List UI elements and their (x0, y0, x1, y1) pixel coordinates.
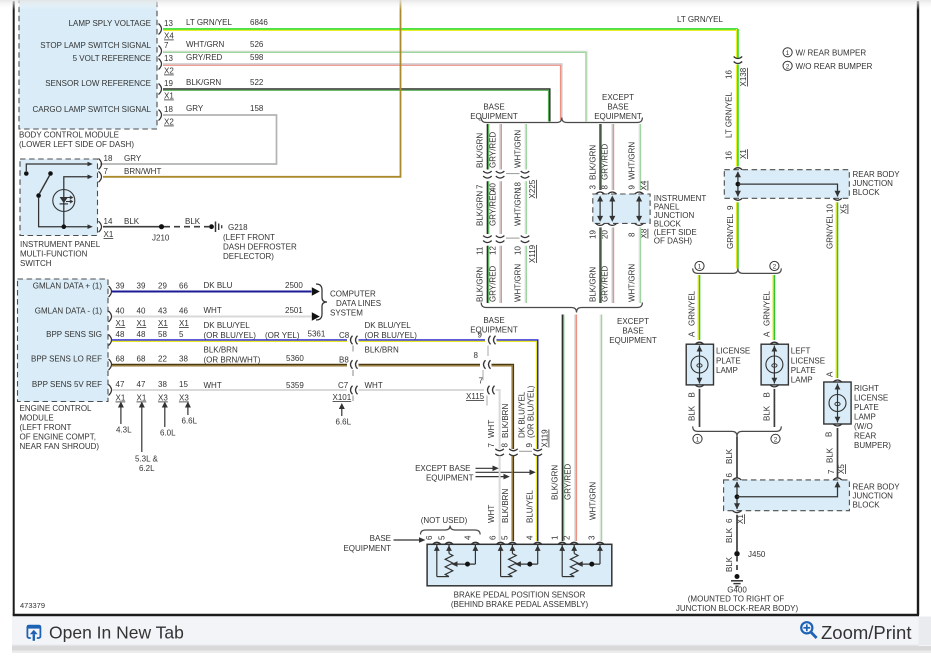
svg-text:7: 7 (827, 469, 836, 474)
svg-text:DK BLU/YEL: DK BLU/YEL (518, 391, 527, 438)
svg-text:JUNCTION: JUNCTION (853, 179, 894, 188)
base equip group wire BLK/GRN brace to X225 (476, 124, 489, 170)
connector B8 (351, 360, 358, 376)
svg-text:OF DASH): OF DASH) (654, 237, 693, 246)
svg-text:7: 7 (104, 167, 109, 176)
svg-text:X2: X2 (164, 118, 174, 127)
wire GRN/YEL junction block to bumper split brace (726, 202, 738, 268)
svg-text:5360: 5360 (286, 354, 304, 363)
wire WHT 5359 BPP SENS 5V REF to C7 (112, 381, 349, 390)
svg-text:38: 38 (179, 355, 188, 364)
svg-text:16: 16 (725, 151, 734, 160)
svg-text:GRY/RED: GRY/RED (489, 189, 498, 226)
toolbar background (12, 617, 919, 646)
lower merge brace base / except base equipment (470, 303, 657, 346)
svg-text:WHT: WHT (365, 381, 383, 390)
svg-text:X119: X119 (528, 244, 537, 263)
svg-text:GRY: GRY (124, 154, 142, 163)
ECM pin row BPP SENS LO REF : 68 68 22 38 (109, 355, 189, 371)
sensor pins 1 2 3 (551, 535, 605, 544)
svg-text:GRN/YEL: GRN/YEL (688, 290, 697, 326)
svg-text:BLOCK: BLOCK (853, 501, 881, 510)
connector pin 7 X115 (466, 377, 495, 406)
svg-text:BLK/BRN: BLK/BRN (501, 404, 510, 438)
svg-text:MODULE: MODULE (20, 414, 54, 423)
svg-text:B: B (688, 392, 697, 397)
svg-text:WHT/GRN: WHT/GRN (514, 264, 523, 302)
svg-text:40: 40 (116, 307, 125, 316)
svg-text:OF ENGINE COMPT,: OF ENGINE COMPT, (20, 433, 96, 442)
svg-text:EXCEPT: EXCEPT (602, 93, 634, 102)
svg-text:BLK: BLK (688, 405, 697, 421)
wire GRN/YEL to left license plate lamp (763, 275, 775, 340)
svg-text:X2: X2 (164, 67, 174, 76)
svg-text:DK BLU/YEL: DK BLU/YEL (204, 321, 251, 330)
ECM pin row BPP SENS SIG : 48 48 58 5 (109, 330, 185, 346)
svg-text:EQUIPMENT: EQUIPMENT (426, 474, 474, 483)
svg-text:PLATE: PLATE (854, 403, 879, 412)
ECM pin row GMLAN DATA + : 39 39 29 66 (109, 282, 189, 298)
svg-text:LAMP: LAMP (854, 413, 876, 422)
svg-text:X3: X3 (179, 394, 189, 403)
svg-text:19: 19 (164, 79, 173, 88)
svg-text:X1: X1 (739, 149, 748, 159)
svg-text:6.2L: 6.2L (139, 464, 155, 473)
svg-text:BASE: BASE (483, 103, 504, 112)
svg-text:48: 48 (116, 330, 125, 339)
svg-text:GRY/RED: GRY/RED (186, 53, 223, 62)
svg-text:BRN/WHT: BRN/WHT (124, 167, 161, 176)
svg-text:43: 43 (158, 307, 167, 316)
svg-text:X119: X119 (541, 429, 550, 448)
svg-text:LICENSE: LICENSE (716, 347, 750, 356)
svg-text:6846: 6846 (250, 18, 268, 27)
wire BLK from left license plate lamp pin B (763, 389, 775, 427)
svg-text:13: 13 (164, 19, 173, 28)
wire BLK from right license plate lamp pin B to junction block (825, 428, 847, 478)
wire LT GRN/YEL vertical drop to connector X138 (737, 29, 738, 59)
svg-text:X3: X3 (158, 394, 168, 403)
svg-text:7: 7 (479, 377, 484, 386)
switch internal: blade contact B to pivot C (36, 171, 93, 229)
svg-text:GRY/RED: GRY/RED (564, 463, 573, 500)
svg-text:22: 22 (158, 355, 167, 364)
svg-text:BLK/BRN: BLK/BRN (204, 346, 238, 355)
rear body junction block upper (724, 168, 900, 201)
svg-text:3: 3 (588, 535, 597, 540)
svg-text:BLK/GRN: BLK/GRN (476, 191, 485, 226)
svg-text:19: 19 (589, 230, 598, 239)
wire BLK merged to rear body junction block lower (725, 436, 737, 478)
svg-text:10: 10 (514, 246, 523, 255)
svg-text:X4: X4 (164, 32, 174, 41)
wire WHT/GRN 526 from BCM to mid branch (163, 40, 587, 122)
license plate lamp (686, 342, 750, 387)
svg-text:REAR: REAR (854, 432, 876, 441)
svg-text:W/ REAR BUMPER: W/ REAR BUMPER (796, 48, 867, 57)
svg-text:38: 38 (158, 380, 167, 389)
wire BLK/GRN lower brace to sensor pin 1 (551, 315, 564, 542)
wire GRN/YEL to license plate lamp (688, 275, 700, 340)
svg-text:2500: 2500 (285, 281, 303, 290)
svg-text:1: 1 (551, 535, 560, 540)
svg-text:2: 2 (774, 437, 778, 444)
base equip wires X119 to lower brace (476, 246, 527, 303)
svg-text:G218: G218 (228, 223, 248, 232)
svg-text:B: B (825, 432, 834, 437)
svg-text:W/O REAR BUMPER: W/O REAR BUMPER (796, 62, 873, 71)
svg-text:5: 5 (179, 330, 184, 339)
wire GRN/YEL junction block to right license plate lamp (826, 202, 838, 378)
wire WHT down to X119 (487, 390, 500, 449)
ground G400 (676, 574, 799, 613)
svg-text:1: 1 (786, 50, 790, 57)
svg-text:BLK: BLK (185, 217, 201, 226)
svg-text:DK BLU/YEL: DK BLU/YEL (365, 321, 412, 330)
svg-text:LAMP SPLY VOLTAGE: LAMP SPLY VOLTAGE (69, 19, 151, 28)
svg-text:REAR BODY: REAR BODY (853, 170, 901, 179)
svg-text:X225: X225 (528, 179, 537, 198)
wire WHT 2501 GMLAN- to computer data lines (112, 306, 320, 321)
BCM pin 13 X4 (lamp supply voltage) (159, 19, 175, 41)
sensor pins 6 5 4 (not used) (425, 535, 480, 544)
svg-text:BRAKE PEDAL POSITION SENSOR: BRAKE PEDAL POSITION SENSOR (454, 591, 586, 600)
wire DK BLU 2500 GMLAN+ to computer data lines (112, 281, 320, 296)
svg-text:GMLAN DATA - (1): GMLAN DATA - (1) (35, 307, 103, 316)
body control module (19, 0, 157, 149)
svg-text:(OR BLU/YEL): (OR BLU/YEL) (527, 385, 536, 438)
connector pin 9 (except base) (478, 331, 496, 357)
wire BLK dashed from J210 to ground G218 (164, 217, 209, 227)
junction block lower pins 19 20 8 X8 (589, 228, 649, 239)
svg-text:DEFLECTOR): DEFLECTOR) (223, 252, 274, 261)
frame left border (13, 1, 15, 615)
svg-text:GRN/YEL: GRN/YEL (726, 213, 735, 249)
switch pin 18 (99, 154, 142, 170)
svg-text:4: 4 (464, 535, 473, 540)
svg-text:BLU/YEL: BLU/YEL (526, 490, 535, 523)
svg-text:GRY: GRY (186, 104, 204, 113)
switch internal: LED indicator (53, 190, 75, 212)
svg-text:WHT: WHT (487, 420, 496, 438)
frame bottom border (13, 614, 919, 617)
svg-text:18: 18 (104, 154, 113, 163)
switch internal: pin18 lead and contact A (24, 162, 93, 176)
svg-text:GRN/YEL: GRN/YEL (826, 213, 835, 249)
svg-text:BODY CONTROL MODULE: BODY CONTROL MODULE (19, 131, 119, 140)
svg-text:WHT/GRN: WHT/GRN (628, 264, 637, 302)
engine variant arrow 4.3L (116, 402, 132, 435)
svg-text:BPP SENS LO REF: BPP SENS LO REF (31, 355, 102, 364)
svg-text:EQUIPMENT: EQUIPMENT (470, 112, 518, 121)
svg-text:GRY/RED: GRY/RED (601, 143, 610, 180)
svg-text:(MOUNTED TO RIGHT OF: (MOUNTED TO RIGHT OF (688, 595, 785, 604)
ECM pin row GMLAN DATA - : 40 40 43 46 / X1 X1 X1 X1 (109, 307, 190, 329)
svg-text:COMPUTER: COMPUTER (330, 290, 376, 299)
variant arrow 6.6L for X101 (336, 403, 352, 427)
svg-text:X1: X1 (137, 319, 147, 328)
svg-text:SWITCH: SWITCH (20, 259, 52, 268)
svg-text:(W/O: (W/O (854, 422, 873, 431)
wire BLK/BRN 5360 BPP SENS LO REF to B8 (112, 346, 349, 366)
svg-text:B: B (763, 392, 772, 397)
except base group wire GRY/RED brace to junction block (601, 124, 614, 190)
svg-text:GRN/YEL: GRN/YEL (763, 290, 772, 326)
base equip group wire GRY/RED brace to X225 (489, 124, 502, 170)
svg-text:BLOCK: BLOCK (853, 188, 881, 197)
svg-text:598: 598 (250, 53, 264, 62)
svg-text:9: 9 (628, 185, 637, 190)
svg-text:PLATE: PLATE (716, 357, 741, 366)
svg-text:SYSTEM: SYSTEM (330, 309, 363, 318)
svg-text:58: 58 (158, 330, 167, 339)
connector row X119 mid (476, 236, 538, 263)
except base group wire WHT/GRN brace to junction block (628, 124, 649, 191)
svg-text:WHT/GRN: WHT/GRN (589, 482, 598, 520)
svg-text:39: 39 (137, 282, 146, 291)
except base equipment arrows (415, 464, 536, 483)
svg-text:DATA LINES: DATA LINES (336, 299, 381, 308)
svg-text:BLK/GRN: BLK/GRN (589, 145, 598, 180)
svg-text:MULTI-FUNCTION: MULTI-FUNCTION (20, 250, 88, 259)
svg-text:BLK/GRN: BLK/GRN (476, 267, 485, 302)
svg-text:EXCEPT: EXCEPT (617, 317, 649, 326)
wire GRY 158 from BCM routed down to multifunction switch pin 18 (100, 104, 277, 164)
BCM pin 13 X2 (5 volt reference) (159, 54, 175, 76)
svg-text:8: 8 (501, 443, 510, 448)
svg-text:X101: X101 (333, 393, 352, 402)
svg-text:RIGHT: RIGHT (854, 384, 879, 393)
wire LT GRN/YEL from X138 down to rear body junction block (725, 65, 749, 167)
svg-text:X115: X115 (466, 392, 485, 401)
splice J210 (152, 224, 170, 242)
svg-text:B8: B8 (339, 356, 349, 365)
wire DK BLU/YEL down to X119 (497, 340, 550, 449)
svg-text:16: 16 (725, 70, 734, 79)
svg-text:BPP SENS 5V REF: BPP SENS 5V REF (32, 380, 102, 389)
engine control module (18, 279, 109, 451)
svg-text:68: 68 (137, 355, 146, 364)
svg-text:BASE: BASE (622, 327, 643, 336)
svg-text:X1: X1 (179, 319, 189, 328)
BCM pin 19 X1 (sensor low reference) (159, 79, 175, 101)
svg-text:LICENSE: LICENSE (791, 357, 825, 366)
left license plate lamp (761, 342, 825, 387)
svg-text:8: 8 (601, 185, 610, 190)
switch pin 14 X1 (99, 217, 140, 239)
wire BLK dashed J450 to ground (725, 556, 737, 573)
connector row X225 (476, 171, 538, 198)
svg-text:46: 46 (179, 307, 188, 316)
svg-text:SENSOR LOW REFERENCE: SENSOR LOW REFERENCE (45, 79, 151, 88)
wire BLK from switch pin 14 to splice J210 (103, 226, 162, 228)
svg-text:8: 8 (474, 351, 479, 360)
svg-text:BASE: BASE (483, 316, 504, 325)
svg-text:4.3L: 4.3L (116, 426, 132, 435)
svg-text:BLK/BRN: BLK/BRN (501, 489, 510, 523)
svg-text:5.3L &: 5.3L & (135, 455, 158, 464)
sensor pins 6 5 4 (base equipment) (489, 535, 543, 544)
svg-text:66: 66 (179, 282, 188, 291)
svg-text:LT GRN/YEL: LT GRN/YEL (186, 18, 232, 27)
svg-text:BLK/GRN: BLK/GRN (589, 267, 598, 302)
engine variant arrow 5.3L & 6.2L (135, 402, 158, 474)
svg-text:EQUIPMENT: EQUIPMENT (609, 336, 657, 345)
svg-text:47: 47 (116, 380, 125, 389)
svg-text:CARGO LAMP SWITCH SIGNAL: CARGO LAMP SWITCH SIGNAL (32, 105, 151, 114)
open in new tab icon (27, 625, 40, 641)
svg-text:14: 14 (104, 217, 113, 226)
svg-text:LT GRN/YEL: LT GRN/YEL (677, 15, 723, 24)
svg-text:6.6L: 6.6L (182, 417, 198, 426)
engine variant arrow 6.0L (160, 402, 176, 438)
svg-text:8: 8 (628, 232, 637, 237)
instrument panel multi-function switch (20, 159, 101, 268)
svg-text:29: 29 (158, 282, 167, 291)
svg-text:EQUIPMENT: EQUIPMENT (343, 544, 391, 553)
sensor potentiometer 2 (498, 544, 541, 576)
svg-text:158: 158 (250, 104, 264, 113)
connector row X119 (three inline connectors) (495, 449, 542, 456)
svg-text:(OR BLU/YEL): (OR BLU/YEL) (204, 331, 257, 340)
svg-text:G400: G400 (727, 586, 747, 595)
wire DK BLU/YEL 5361 BPP SENS SIG to C8 (112, 321, 350, 341)
svg-text:48: 48 (137, 330, 146, 339)
instrument panel junction block (593, 192, 707, 246)
svg-text:C7: C7 (338, 381, 349, 390)
svg-text:WHT: WHT (204, 381, 222, 390)
svg-text:BLK: BLK (124, 217, 140, 226)
svg-text:9: 9 (726, 205, 735, 210)
sensor potentiometer 1 (not used) (434, 544, 478, 576)
svg-text:7: 7 (476, 184, 485, 189)
upper split brace base / except base equipment (470, 93, 642, 123)
wire BLK/BRN down to X119 (492, 365, 514, 450)
svg-text:1: 1 (698, 264, 702, 271)
svg-text:J450: J450 (748, 550, 766, 559)
wire GRY/RED lower brace to sensor pin 2 (564, 315, 577, 542)
svg-text:5: 5 (501, 535, 510, 540)
svg-text:5 VOLT REFERENCE: 5 VOLT REFERENCE (73, 54, 151, 63)
svg-text:STOP LAMP SWITCH SIGNAL: STOP LAMP SWITCH SIGNAL (40, 41, 151, 50)
bumper variant split brace with circled 1 and 2 (693, 261, 782, 273)
svg-text:JUNCTION BLOCK-REAR BODY): JUNCTION BLOCK-REAR BODY) (676, 604, 799, 613)
svg-text:6.6L: 6.6L (336, 418, 352, 427)
svg-text:EQUIPMENT: EQUIPMENT (594, 112, 642, 121)
svg-text:(LEFT FRONT: (LEFT FRONT (20, 423, 72, 432)
svg-text:Open In New Tab: Open In New Tab (49, 623, 184, 643)
svg-text:EQUIPMENT: EQUIPMENT (470, 326, 518, 335)
svg-text:BLK/GRN: BLK/GRN (186, 78, 221, 87)
svg-text:LAMP: LAMP (716, 366, 738, 375)
frame right border (917, 1, 919, 615)
svg-text:X1: X1 (736, 514, 745, 524)
svg-text:A: A (763, 331, 772, 337)
svg-text:WHT/GRN: WHT/GRN (514, 130, 523, 168)
BCM pin 7 (stop lamp switch signal) (159, 41, 170, 57)
svg-text:47: 47 (137, 380, 146, 389)
svg-text:1: 1 (696, 437, 700, 444)
svg-text:6: 6 (425, 535, 434, 540)
svg-text:WHT: WHT (487, 505, 496, 523)
svg-text:2: 2 (786, 64, 790, 71)
connector C8 (351, 336, 358, 352)
svg-text:2: 2 (563, 535, 572, 540)
svg-text:NEAR FAN SHROUD): NEAR FAN SHROUD) (20, 442, 100, 451)
splice J450 (734, 550, 766, 559)
svg-text:5361: 5361 (308, 330, 326, 339)
wire WHT/GRN lower brace to sensor pin 3 (589, 315, 602, 542)
svg-text:11: 11 (476, 246, 485, 255)
wire BRN/WHT from switch pin 7 up to top edge (103, 0, 401, 177)
svg-text:2: 2 (773, 264, 777, 271)
svg-text:40: 40 (137, 307, 146, 316)
svg-text:(OR BRN/WHT): (OR BRN/WHT) (204, 356, 261, 365)
svg-text:473379: 473379 (20, 601, 45, 610)
svg-text:3: 3 (589, 185, 598, 190)
svg-text:15: 15 (179, 380, 188, 389)
wire BLK junction block to splice J450 (725, 514, 745, 551)
engine variant arrow 6.6L (182, 402, 198, 426)
svg-text:BPP SENS SIG: BPP SENS SIG (46, 330, 102, 339)
zoom/print icon magnifier (801, 622, 816, 638)
svg-text:DK BLU: DK BLU (204, 281, 233, 290)
svg-text:GRY/RED: GRY/RED (489, 131, 498, 168)
svg-text:X1: X1 (137, 394, 147, 403)
wire GRY/RED 598 from BCM to mid branch (163, 53, 562, 120)
legend circled 1 w/ rear bumper (783, 48, 866, 58)
wires WHT / BLK/BRN / BLU/YEL from X119 to sensor (487, 456, 538, 541)
svg-text:13: 13 (164, 54, 173, 63)
connector C7 X101 (333, 386, 358, 402)
wire DK BLU/YEL C8 to pin9 connector (359, 321, 486, 341)
svg-text:(NOT USED): (NOT USED) (421, 516, 468, 525)
svg-text:BLK: BLK (725, 448, 734, 464)
svg-text:(OR YEL): (OR YEL) (265, 331, 300, 340)
toolbar bottom shadow band (12, 646, 931, 651)
svg-text:522: 522 (250, 78, 264, 87)
svg-text:GRY/RED: GRY/RED (489, 265, 498, 302)
svg-text:WHT/GRN: WHT/GRN (186, 40, 224, 49)
base equip group wire WHT/GRN brace to X225 (514, 124, 527, 170)
svg-text:WHT/GRN: WHT/GRN (628, 142, 637, 180)
svg-text:12: 12 (489, 246, 498, 255)
svg-text:X1: X1 (116, 319, 126, 328)
svg-text:BLK/GRN: BLK/GRN (476, 133, 485, 168)
svg-text:10: 10 (826, 204, 835, 213)
svg-text:ENGINE CONTROL: ENGINE CONTROL (20, 404, 93, 413)
svg-text:6: 6 (725, 473, 734, 478)
svg-text:39: 39 (116, 282, 125, 291)
svg-text:WHT: WHT (204, 306, 222, 315)
wire BLK from license plate lamp pin B (688, 389, 700, 427)
svg-text:5: 5 (438, 535, 447, 540)
svg-text:JUNCTION: JUNCTION (853, 492, 894, 501)
junction block lower pins 9 / 10 X5 (726, 204, 849, 214)
wire WHT C7 to X115 connector (359, 381, 485, 390)
svg-text:X1: X1 (116, 394, 126, 403)
svg-text:A: A (688, 331, 697, 337)
svg-text:BUMPER): BUMPER) (854, 441, 891, 450)
svg-text:BASE: BASE (607, 103, 628, 112)
svg-text:X1: X1 (104, 230, 114, 239)
ground G218 (209, 222, 297, 262)
except base group wire BLK/GRN brace to junction block (589, 124, 602, 190)
computer data lines system brace (316, 284, 381, 320)
svg-text:BLK: BLK (763, 405, 772, 421)
svg-text:LICENSE: LICENSE (854, 394, 888, 403)
svg-text:X1: X1 (158, 319, 168, 328)
